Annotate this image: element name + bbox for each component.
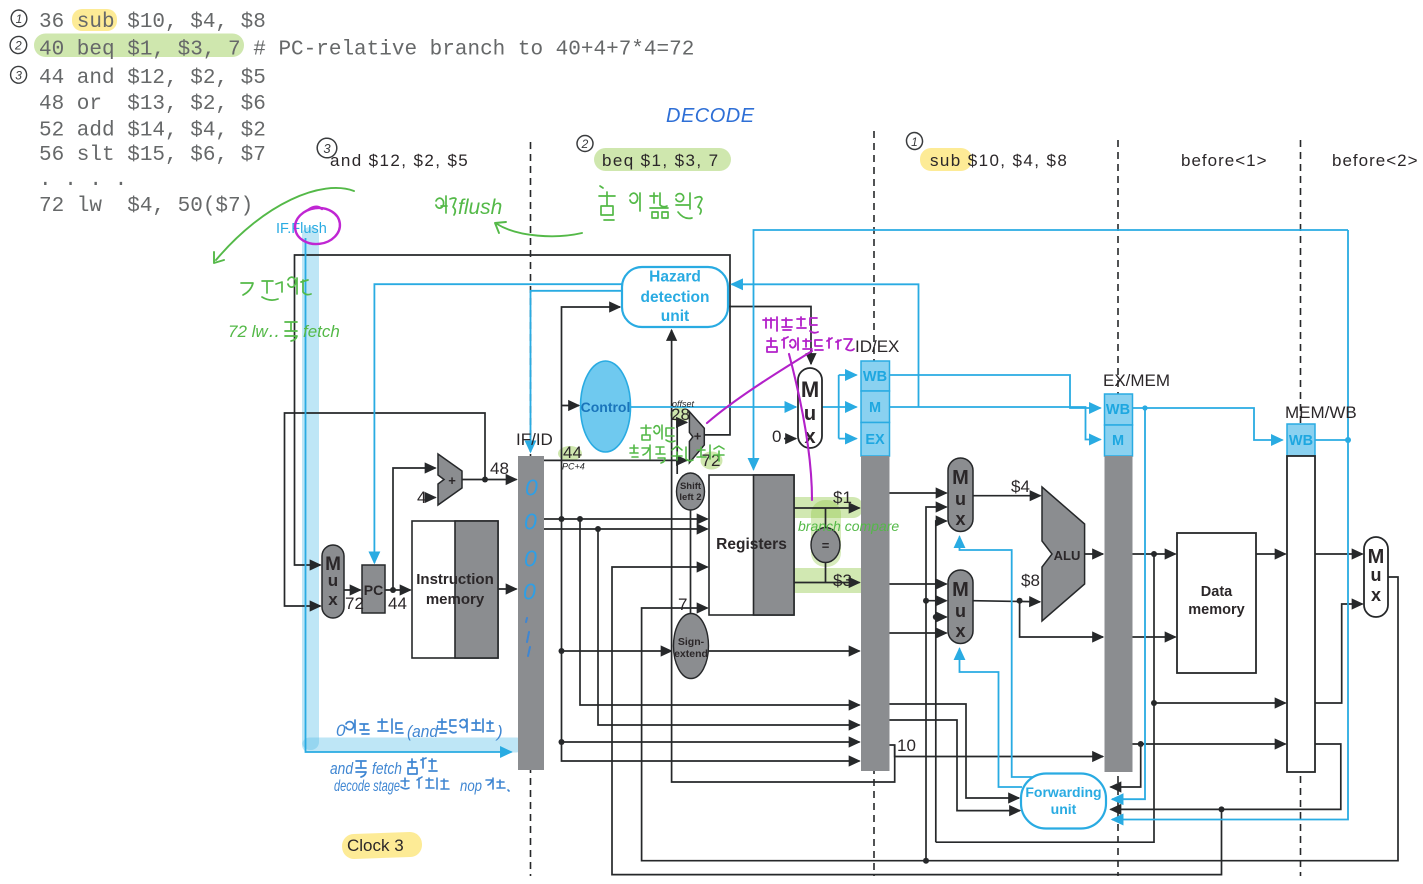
svg-text:$4: $4 xyxy=(1011,477,1030,496)
wire: MEM/WB ALU result to WB mux bottom input xyxy=(1315,604,1363,703)
Instruction memory xyxy=(412,521,498,658)
wire: EX/MEM-forward vertical into mux A and mux B xyxy=(936,521,947,842)
wire: PC+4 feedback to PC mux bottom input xyxy=(285,413,486,606)
svg-text:unit: unit xyxy=(1051,801,1077,817)
green curved arrow to IF.Flush xyxy=(216,188,354,260)
svg-text:DECODE: DECODE xyxy=(666,105,755,127)
wire: Control output (cyan) to stall mux xyxy=(631,406,797,408)
svg-text:3: 3 xyxy=(323,141,331,156)
green highlight strips over branch-compare area xyxy=(785,497,863,518)
junction PC+4 (48) xyxy=(482,477,488,483)
svg-text:40 beq $1, $3, 7 # PC-relative: 40 beq $1, $3, 7 # PC-relative branch to… xyxy=(39,39,694,62)
svg-text:M: M xyxy=(869,400,881,416)
mux (forward B, gray) xyxy=(948,570,973,644)
register ID/EX : M box xyxy=(861,391,890,423)
svg-text:decode stage: decode stage xyxy=(334,778,400,795)
wire: PC output up to +4 adder top input xyxy=(393,468,436,590)
register MEM/WB : WB box xyxy=(1287,424,1315,456)
wire: EX/MEM RegWrite (cyan) down to forwarding unit xyxy=(1112,408,1145,799)
svg-text:2: 2 xyxy=(581,137,589,151)
purple handwriting: 패널티를 xyxy=(763,317,818,333)
svg-text:fetch: fetch xyxy=(303,322,340,341)
wire: MEM/WB WB control (cyan) to writeback net xyxy=(1315,439,1348,441)
junction RegWrite cyan xyxy=(1345,437,1351,443)
hand-drawn circled 2 at stage label "beq" xyxy=(577,136,593,152)
wire: WB-forward vertical into mux A and mux B xyxy=(926,507,947,861)
wire: ForwardA control (cyan) from forwarding unit to mux A xyxy=(960,537,1034,778)
svg-text:0: 0 xyxy=(524,546,537,572)
svg-text:0: 0 xyxy=(336,721,346,740)
svg-text:10: 10 xyxy=(897,736,916,755)
equality comparator (=) xyxy=(811,528,840,563)
svg-text:EX: EX xyxy=(865,432,885,448)
svg-text:WB: WB xyxy=(1106,402,1130,418)
junction instruction bus xyxy=(559,516,565,522)
purple handwriting: 한 사이클로 최소화 xyxy=(767,337,854,352)
svg-text:+: + xyxy=(694,429,702,444)
svg-text:u: u xyxy=(804,403,816,425)
svg-text:3: 3 xyxy=(15,68,22,82)
wire: constant 0 into stall mux xyxy=(784,438,796,440)
stage separator dashed line (MEM/WB) xyxy=(1300,140,1302,876)
wire: stall mux output (cyan) into ID/EX WB,M,EX boxes xyxy=(822,406,839,408)
wire: sign-extend (7) up into shift left 2 xyxy=(690,510,692,614)
svg-text:unit: unit xyxy=(661,308,689,325)
svg-text:$1: $1 xyxy=(833,488,852,507)
register ID/EX : WB box xyxy=(861,361,890,391)
hand-drawn circled 1 at stage label "sub" xyxy=(905,131,924,151)
wire: hazard detection output to stall mux (control zero) xyxy=(728,307,811,365)
wire: ID/EX M control (cyan) to EX/MEM M xyxy=(890,407,1101,440)
wire: instruction vertical bus from IF/ID up to hazard detection unit xyxy=(562,307,621,742)
svg-text:=: = xyxy=(822,538,830,553)
svg-text:M: M xyxy=(1112,433,1124,449)
svg-text:before<2>: before<2> xyxy=(1332,151,1419,170)
svg-text:nop: nop xyxy=(460,778,482,795)
svg-text:IF/ID: IF/ID xyxy=(516,430,553,449)
svg-text:M: M xyxy=(952,579,969,601)
svg-text:PC: PC xyxy=(364,582,383,598)
register ID/EX (gray pipeline bar) xyxy=(861,456,890,771)
wire: PC output to Instruction memory xyxy=(385,589,411,591)
wire: instruction field branch to ID/EX lower input xyxy=(562,742,860,761)
wire: branch target (72) adder output to PC mux top input xyxy=(295,255,731,565)
svg-text:extend: extend xyxy=(674,648,708,660)
green handwriting: 참 이 없으면 xyxy=(599,186,702,220)
yellow highlight over "sub" in code line 1 xyxy=(72,9,117,31)
svg-text:48: 48 xyxy=(490,459,509,478)
green highlight blob over "72" xyxy=(701,452,723,470)
yellow highlight over stage label "sub" xyxy=(920,148,972,171)
wire: IF.Flush (cyan) down left side into IF/ID xyxy=(306,238,512,752)
wire: EX/MEM WB control (cyan) to MEM/WB WB xyxy=(1132,408,1283,440)
blue handwritten zeros inside IF/ID xyxy=(523,475,538,605)
green handwriting: 이거 flush xyxy=(436,196,456,215)
wire: adder output (48) into IF/ID xyxy=(462,479,517,481)
svg-text:56 slt $15, $6, $7: 56 slt $15, $6, $7 xyxy=(39,144,266,167)
svg-text:1: 1 xyxy=(911,135,918,149)
mux (forward A, gray) xyxy=(948,458,973,532)
svg-text:and: and xyxy=(330,759,353,778)
svg-text:Registers: Registers xyxy=(716,536,787,553)
wire: EX/MEM ALU result forwarding path down and left to EX muxes xyxy=(936,554,1154,842)
svg-text:IF.Flush: IF.Flush xyxy=(276,221,327,237)
svg-text:sub $10, $4, $8: sub $10, $4, $8 xyxy=(930,151,1068,170)
register EX/MEM : M box xyxy=(1105,425,1133,456)
hand-drawn circled 3 at stage label "and" xyxy=(316,137,338,159)
svg-text:44 and $12, $2, $5: 44 and $12, $2, $5 xyxy=(39,67,266,90)
svg-text:branch compare: branch compare xyxy=(798,518,899,534)
purple circle around Flush xyxy=(293,205,342,246)
wire: PC mux output to PC xyxy=(344,589,361,591)
wire: ID/EX rt down and around to hazard detection unit xyxy=(672,330,895,782)
mux (stall / control-zero select, white) xyxy=(798,368,822,448)
wire: ID/EX read data 2 to forward mux B xyxy=(890,583,947,585)
wire: constant 4 into adder xyxy=(427,497,436,499)
green handwriting: 참이면 (above branch adder) xyxy=(641,425,675,442)
Data memory xyxy=(1177,533,1256,673)
svg-text:offset: offset xyxy=(672,399,695,409)
Registers xyxy=(709,475,794,615)
wire: instruction rt field down to ID/EX xyxy=(598,529,860,725)
svg-text:memory: memory xyxy=(1188,602,1244,618)
register ID/EX : EX box xyxy=(861,423,890,457)
svg-text:fetch: fetch xyxy=(372,759,402,778)
wire: WB mux output back to Registers write data xyxy=(642,577,1398,861)
wire: IF/ID PC+4 (44) to branch adder lower input xyxy=(544,459,687,461)
svg-text:x: x xyxy=(955,509,965,529)
green highlight blob over "28" xyxy=(670,407,691,422)
wire: Registers read data 1 ($1) into ID/EX xyxy=(794,507,860,509)
wire: mux B output branch down into EX/MEM (store data) xyxy=(1020,601,1103,637)
wire: ID/EX lower operand into mux B xyxy=(890,632,947,634)
svg-text:u: u xyxy=(955,489,966,509)
svg-text:7: 7 xyxy=(678,595,687,614)
mux (writeback select, white) xyxy=(1364,537,1388,617)
svg-text:detection: detection xyxy=(641,289,710,306)
wire: Registers read data 2 ($3) into ID/EX xyxy=(794,582,860,584)
svg-text:0: 0 xyxy=(772,427,781,446)
svg-text:flush: flush xyxy=(458,196,502,219)
svg-text:ID/EX: ID/EX xyxy=(855,337,899,356)
wire: IF/ID to Registers read register 1 xyxy=(544,518,708,520)
svg-text:M: M xyxy=(952,467,969,489)
ALU xyxy=(1042,487,1085,621)
svg-text:1: 1 xyxy=(16,12,23,26)
purple stroke toward branch adder xyxy=(707,351,812,423)
Sign-extend xyxy=(674,614,709,679)
cyan highlighter strip (vertical, traces IF.Flush wire) xyxy=(302,227,319,750)
register EX/MEM : WB box xyxy=(1105,394,1133,425)
wire: EX/MEM ALU result into MEM/WB xyxy=(1154,702,1286,704)
svg-text:MEM/WB: MEM/WB xyxy=(1285,403,1357,422)
wire: MEM/WB rd branch back to Registers write register xyxy=(612,567,1222,875)
svg-text:0: 0 xyxy=(524,509,537,535)
svg-text:M: M xyxy=(801,377,819,402)
svg-text:ALU: ALU xyxy=(1054,548,1081,563)
svg-text:PC+4: PC+4 xyxy=(562,462,585,472)
wire: ID/EX MemRead (cyan) up into hazard detection unit xyxy=(732,284,919,407)
svg-text:and $12, $2, $5: and $12, $2, $5 xyxy=(330,151,469,170)
register MEM/WB (white pipeline bar) xyxy=(1287,456,1315,772)
wire: instruction branch into Control xyxy=(562,405,580,407)
green highlight over stage label "beq $1, $3, 7" xyxy=(594,148,731,171)
svg-text:WB: WB xyxy=(1289,433,1313,449)
wire: ForwardB control (cyan) from forwarding unit to mux B xyxy=(960,649,1023,788)
stage separator dashed line (IF/ID) xyxy=(530,142,532,876)
green small arrow from right to 이거 flush xyxy=(497,224,582,236)
wire: instruction rs field down to ID/EX xyxy=(580,519,860,705)
wire: ID/EX read data 1 to forward mux A xyxy=(890,492,947,494)
Shift left 2 xyxy=(677,473,705,510)
svg-text:. . . .: . . . . xyxy=(39,169,127,192)
wire: EX/MEM rd into MEM/WB xyxy=(1132,743,1286,745)
svg-text:72: 72 xyxy=(345,594,364,613)
green handwriting: 그 다음인 xyxy=(241,277,311,300)
svg-text:Hazard: Hazard xyxy=(649,269,701,286)
svg-text:beq $1, $3, 7: beq $1, $3, 7 xyxy=(602,151,719,170)
svg-text:52 add $14, $4, $2: 52 add $14, $4, $2 xyxy=(39,120,266,143)
svg-text:72 lw $4, 50($7): 72 lw $4, 50($7) xyxy=(39,195,253,218)
svg-text:Data: Data xyxy=(1201,584,1233,600)
wire: Instruction memory output into IF/ID xyxy=(498,588,517,590)
Control unit (ellipse) xyxy=(581,361,631,452)
svg-text:$3: $3 xyxy=(833,571,852,590)
wire: instruction immediate to sign-extend xyxy=(562,650,672,652)
wire: MEM/WB rd to forwarding unit xyxy=(1111,744,1341,809)
svg-text:+: + xyxy=(448,473,456,488)
svg-text:36 sub $10, $4, $8: 36 sub $10, $4, $8 xyxy=(39,11,266,34)
hand-drawn circled 1 beside line 1 xyxy=(9,9,28,84)
junction ALU result xyxy=(1151,551,1157,557)
wire: MEM/WB read data to WB mux top input xyxy=(1315,553,1363,555)
wire: IF/ID to Registers read register 2 xyxy=(544,528,708,530)
junction mux B output xyxy=(1017,598,1023,604)
svg-text:Forwarding: Forwarding xyxy=(1025,784,1101,800)
green handwriting: 분기할 주소 계산 xyxy=(630,445,724,463)
wire: ID/EX WB control (cyan) to EX/MEM WB xyxy=(890,375,1101,408)
svg-text:u: u xyxy=(328,571,338,590)
Forwarding unit xyxy=(1021,774,1106,829)
svg-text:72: 72 xyxy=(702,451,721,470)
wire: mux A output ($4) to ALU xyxy=(973,495,1041,497)
svg-text:44: 44 xyxy=(563,443,582,462)
svg-text:4: 4 xyxy=(417,488,426,507)
adder (branch target) xyxy=(689,412,704,463)
wire: EX/MEM rd branch down into forwarding unit xyxy=(1111,744,1141,787)
junction WB forward xyxy=(923,598,929,604)
svg-text:memory: memory xyxy=(426,591,485,608)
adder (PC+4) xyxy=(438,454,462,505)
svg-text:(and: (and xyxy=(407,722,438,741)
wire: EX/MEM ALU result to Data memory address xyxy=(1132,553,1176,555)
svg-text:Clock 3: Clock 3 xyxy=(347,836,404,855)
cyan highlighter strip (horizontal, bottom of IF.Flush wire) xyxy=(302,738,524,753)
svg-text:before<1>: before<1> xyxy=(1181,151,1268,170)
wire: ALU result into EX/MEM xyxy=(1085,553,1103,555)
purple stroke down toward $1 compare xyxy=(789,354,812,500)
stage separator dashed line (ID/EX) xyxy=(873,131,875,876)
wire: ID/EX rd (10) into EX/MEM xyxy=(890,745,1104,757)
register EX/MEM (gray pipeline bar) xyxy=(1105,456,1133,772)
svg-text:u: u xyxy=(955,601,966,621)
wire: hazard IF/ID-write (cyan) to IF/ID xyxy=(531,291,623,452)
wire: instruction field to ID/EX (register numbers) xyxy=(562,741,860,743)
svg-text:44: 44 xyxy=(388,594,407,613)
wire: EX/MEM store data to Data memory write data xyxy=(1132,636,1176,638)
PC register xyxy=(362,565,385,613)
svg-text:WB: WB xyxy=(863,369,887,385)
svg-text:2: 2 xyxy=(14,39,22,53)
svg-text:Shift: Shift xyxy=(680,481,702,492)
svg-text:left 2: left 2 xyxy=(679,492,701,503)
svg-text:x: x xyxy=(328,590,338,609)
wire: mux B output ($8) to ALU xyxy=(973,601,1040,602)
svg-text:EX/MEM: EX/MEM xyxy=(1103,371,1170,390)
mux (PC source select, gray) xyxy=(322,545,344,618)
register IF/ID (gray pipeline bar) xyxy=(518,456,544,770)
wire: stub into equality comparator top xyxy=(825,508,827,529)
wire: shift-left-2 output (28) to branch adder upper input xyxy=(677,422,687,474)
wire: ID/EX rs to forwarding unit xyxy=(890,704,1020,798)
svg-text:): ) xyxy=(495,722,503,741)
svg-text:Sign-: Sign- xyxy=(678,636,705,648)
wire: ID/EX rt to forwarding unit xyxy=(890,720,1021,811)
junction EX/MEM rd xyxy=(1138,741,1144,747)
green highlight over code line 2 "40 beq $1, $3, 7" xyxy=(34,34,244,58)
yellow highlight over "Clock 3" xyxy=(342,832,423,860)
junction EX/MEM forward xyxy=(933,614,939,620)
junction MEM/WB rd xyxy=(1219,806,1225,812)
svg-text:Instruction: Instruction xyxy=(416,571,494,588)
green highlight blob over "44" xyxy=(558,446,582,461)
svg-text:x: x xyxy=(1371,585,1381,605)
Hazard detection unit xyxy=(622,267,728,327)
stage separator dashed line (EX/MEM) xyxy=(1117,140,1119,876)
junction PC output xyxy=(390,587,396,593)
wire: Data memory read data into MEM/WB xyxy=(1256,553,1286,555)
wire: hazard PCWrite (cyan) to PC xyxy=(374,284,622,563)
svg-text:$8: $8 xyxy=(1021,571,1040,590)
highlighter marks layer xyxy=(34,9,972,859)
svg-text:Control: Control xyxy=(581,399,631,415)
svg-text:0: 0 xyxy=(523,579,536,605)
svg-text:u: u xyxy=(1371,565,1382,585)
wire: RegWrite writeback (cyan) from MEM/WB to Registers xyxy=(754,230,1349,470)
svg-text:x: x xyxy=(955,621,965,641)
wire: stub into equality comparator bottom xyxy=(825,561,827,583)
svg-text:72 lw‥: 72 lw‥ xyxy=(228,322,279,341)
svg-text:0: 0 xyxy=(525,475,538,501)
wire: sign-extend output into ID/EX xyxy=(709,650,860,652)
svg-text:48 or $13, $2, $6: 48 or $13, $2, $6 xyxy=(39,93,266,116)
